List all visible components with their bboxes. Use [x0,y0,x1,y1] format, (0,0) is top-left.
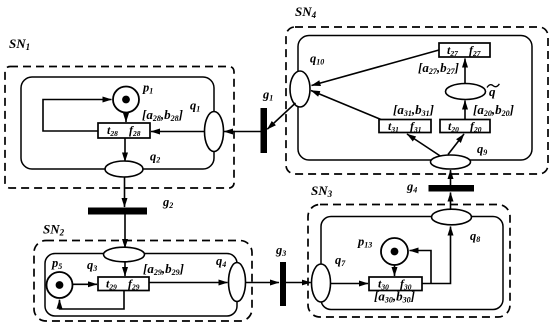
wire g4 to q9 [450,170,452,185]
label [a28,b28] [142,107,183,123]
svg-text:q2: q2 [150,150,160,165]
svg-text:[a29,b29]: [a29,b29] [143,261,184,277]
svg-text:[a28,b28]: [a28,b28] [142,107,183,123]
label [a30,b30] [374,289,415,305]
transition t30 f30 [369,277,422,292]
port q2 [105,161,143,177]
svg-text:q10: q10 [310,52,324,67]
subnet SN1 dashed boundary [5,67,234,189]
svg-text:q8: q8 [470,229,480,244]
svg-text:g4: g4 [406,180,417,195]
label q1 [190,99,200,114]
svg-text:[a27,b27]: [a27,b27] [418,60,459,76]
label q10 [310,52,324,67]
svg-text:SN3: SN3 [311,183,333,199]
subnet SN3 inner rounded box [321,217,503,310]
subnet SN3 label [311,183,333,199]
transition t20 f20 [440,119,490,134]
port q4 [229,263,246,302]
transition t31 f31 [379,119,431,134]
transition t27 f27 [439,43,490,58]
label q7 [335,253,346,268]
label [a20,b20] [473,102,514,118]
label q4 [216,254,226,269]
svg-text:[a31,b31]: [a31,b31] [393,102,434,118]
label q8 [470,229,480,244]
wire q8 to g4 [450,193,452,210]
gate bar g1 [261,108,268,153]
wire q4 to g3 [246,282,280,284]
wire t27 to q10 [312,50,440,86]
transition t29 f29 [98,277,149,292]
label [a29,b29] [143,261,184,277]
svg-text:p5: p5 [51,256,62,271]
svg-text:SN2: SN2 [43,222,65,238]
svg-text:q9: q9 [477,142,487,157]
wire q9 to t31 [407,134,441,157]
wire feedback t29 to p5 [60,291,125,310]
label p5 [51,256,62,271]
port q-tilde [446,84,486,100]
wire feedback t28 to p1 [43,100,112,132]
place p13 [381,238,408,265]
label g2 [162,195,173,210]
wire g2 to q3 [124,215,126,249]
svg-text:q3: q3 [87,258,97,273]
gate bar g2 [88,208,147,215]
subnet SN1 inner rounded box [21,77,214,169]
wire p1 to t28 [125,114,127,123]
label [a27,b27] [418,60,459,76]
subnet SN4 label [295,4,317,20]
svg-text:SN4: SN4 [295,4,317,20]
wire q7 to t30 [331,283,369,285]
label q2 [150,150,160,165]
label [a31,b31] [393,102,434,118]
label q-tilde [487,84,499,99]
label q9 [477,142,487,157]
label p1 [142,81,153,96]
port q7 [312,264,331,302]
subnet SN4 dashed boundary [286,27,548,174]
svg-text:[a20,b20]: [a20,b20] [473,102,514,118]
wire q2 to g2 [124,177,126,207]
port q8 [432,209,472,225]
subnet SN3 dashed boundary [308,205,510,318]
wire t30 to q8 [422,227,451,284]
wire t29 to q4 [149,282,228,284]
subnet SN1 label [9,36,30,52]
wire g3 to q7 [286,282,311,284]
label g4 [406,180,417,195]
label q3 [87,258,97,273]
port q3 [104,247,145,262]
gate bar g3 [280,262,286,306]
port q9 [431,155,471,169]
wire t28 to q2 [124,138,126,162]
svg-text:q7: q7 [335,253,346,268]
wire q10 to g1 [267,103,295,129]
label g1 [262,88,273,103]
place p5 [47,272,73,298]
svg-text:g1: g1 [262,88,273,103]
wire t31 to q10 [311,91,381,120]
port q10 [290,71,310,107]
label p13 [357,235,372,250]
gate bar g4 [429,185,475,192]
wire p5 to t29 [73,283,97,285]
wire g1 to q1 [224,131,261,133]
wire q9 to t20 [448,134,464,155]
port q1 [205,112,224,152]
wire q3 to t29 [124,262,126,276]
wire p13 to t30 [394,265,396,276]
wire q1 to t28 [151,131,205,133]
wire branch to p13 [410,251,432,284]
subnet SN2 inner rounded box [45,254,237,317]
label g3 [275,243,286,258]
svg-text:q4: q4 [216,254,226,269]
svg-text:g3: g3 [275,243,286,258]
subnet SN2 label [43,222,65,238]
subnet SN2 dashed boundary [34,241,252,322]
wire t20 to qt [464,101,466,120]
svg-text:q1: q1 [190,99,200,114]
subnet SN4 inner rounded box [298,36,532,161]
svg-text:p13: p13 [357,235,372,250]
place p1 [113,87,139,113]
svg-text:g2: g2 [162,195,173,210]
svg-text:p1: p1 [142,81,153,96]
wire qt to t27 [464,59,466,84]
transition t28 f28 [98,123,150,138]
svg-text:SN1: SN1 [9,36,30,52]
